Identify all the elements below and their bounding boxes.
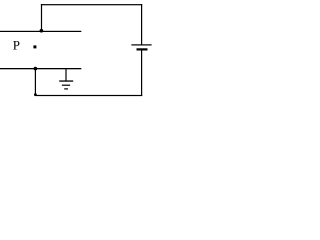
svg-text:P: P <box>13 38 20 53</box>
